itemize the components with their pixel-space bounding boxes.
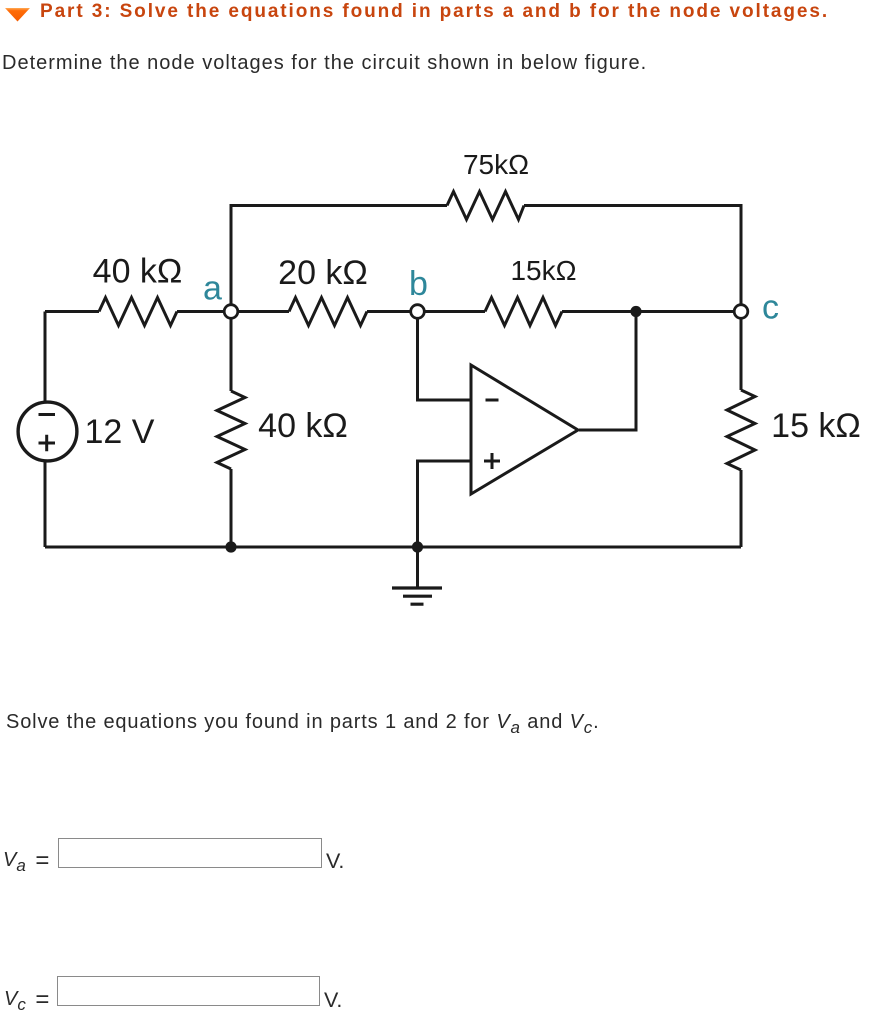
wire: main rail 15k resistor to node c [562,310,741,313]
wire: node c branch lower to bottom rail [740,470,743,547]
problem statement [2,51,647,75]
Va unit [326,851,344,873]
wire: node c branch upper [740,312,743,391]
node b terminal circle [411,305,425,319]
wire: main rail 20k resistor through node b to 15k resistor [367,310,485,313]
ground stem [416,547,419,588]
wire: op-amp output to feedback node [579,312,636,431]
wire: op-amp noninverting input to ground rail [418,461,472,547]
wire: top loop right riser from 75k resistor across and down to node c [524,206,741,312]
op-amp noninverting input plus sign [484,453,500,469]
svg-text:75kΩ: 75kΩ [463,149,529,180]
node a terminal circle [224,305,238,319]
Vc input box [57,976,320,1006]
Vc answer row [4,989,49,1015]
wire: main rail 40k resistor to node a to 20k resistor [177,310,289,313]
node c terminal circle [734,305,748,319]
svg-text:15kΩ: 15kΩ [510,255,576,286]
voltage source minus sign [39,413,56,416]
circuit figure [0,0,876,660]
resistor R 40kΩ (left series) [99,298,177,326]
resistor 15kΩ (series b-c) [485,298,562,326]
svg-text:c: c [762,289,779,327]
svg-text:40 kΩ: 40 kΩ [93,253,183,291]
op-amp inverting input minus sign [486,399,499,402]
voltage source plus sign [39,435,56,452]
ground symbol [392,588,442,604]
op-amp U1 [471,365,578,494]
instruction line [6,710,600,740]
wire: left branch below voltage source [44,460,47,547]
part title [40,0,829,23]
svg-text:12 V: 12 V [85,413,155,451]
Va input box [58,838,322,868]
wire: main rail from source top corner to 40k resistor [45,310,99,313]
svg-text:a: a [203,270,222,308]
junction dot node a branch at bottom rail [225,541,236,552]
junction dot ground at bottom rail [412,541,423,552]
svg-text:15 kΩ: 15 kΩ [771,407,861,445]
resistor 20kΩ (series a-b) [289,298,367,326]
Va answer row [3,850,49,876]
wire: node b down and to op-amp inverting input [418,312,472,401]
wire: bottom ground rail [45,546,741,549]
resistor 15kΩ (load at node c) [727,390,755,470]
expand triangle icon [0,0,40,30]
resistor 75kΩ (feedback) [447,192,524,220]
wire: left branch above voltage source [44,312,47,404]
wire: top loop left riser from node a up and across to 75k resistor [231,206,447,312]
Vc unit [324,990,342,1012]
svg-text:40 kΩ: 40 kΩ [258,407,348,445]
junction dot at op-amp output on main rail [630,306,641,317]
resistor 40kΩ (shunt at node a) [217,391,245,469]
wire: node a branch upper [230,312,233,392]
svg-text:b: b [409,265,428,303]
svg-text:20 kΩ: 20 kΩ [278,254,368,292]
wire: node a branch lower to bottom rail [230,469,233,547]
voltage source V1 12V circle [18,402,77,461]
